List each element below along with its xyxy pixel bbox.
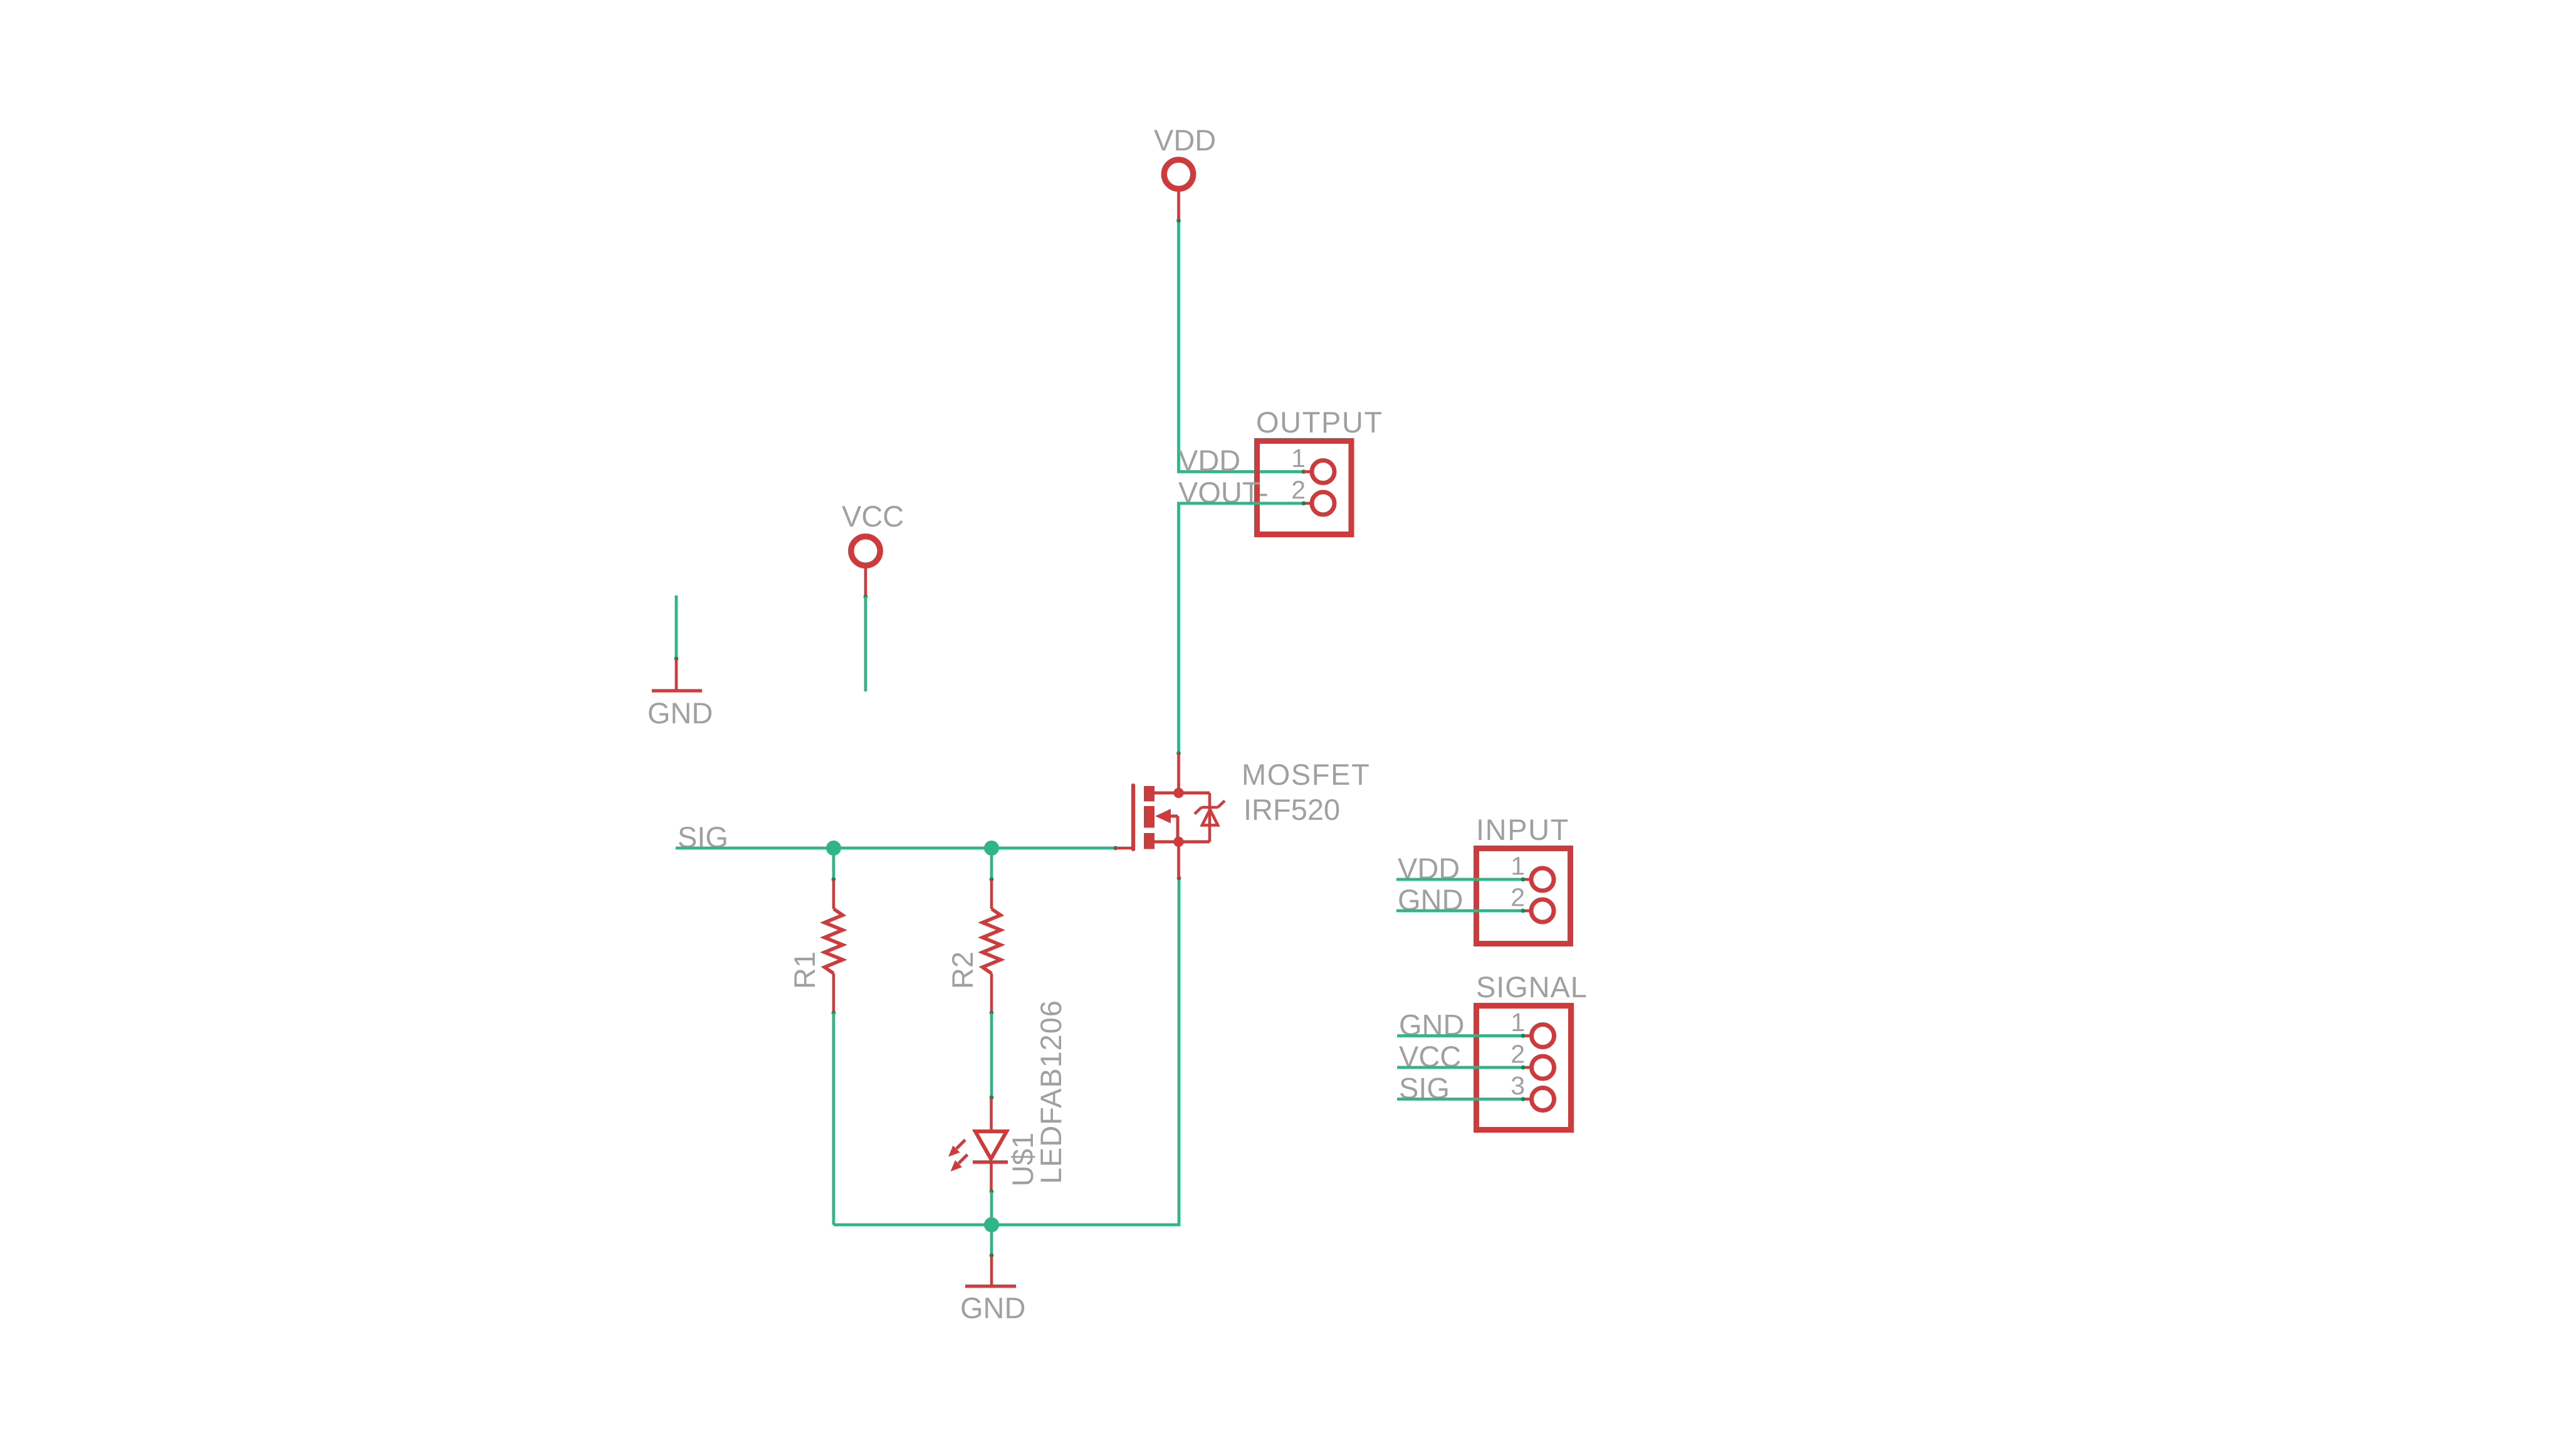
SIGNAL connector bbox=[1399, 970, 1588, 1130]
svg-text:1: 1 bbox=[1291, 444, 1306, 473]
wire SIGNAL pin 2 (VCC) bbox=[1397, 1066, 1525, 1070]
pin 2 bbox=[1304, 502, 1311, 505]
pin 2 bbox=[1523, 1066, 1531, 1069]
svg-text:IRF520: IRF520 bbox=[1243, 793, 1340, 826]
pin 2 bbox=[1523, 909, 1531, 913]
substrate arrow bbox=[1155, 809, 1171, 824]
channel blocks bbox=[1144, 786, 1154, 802]
svg-text:INPUT: INPUT bbox=[1476, 813, 1569, 846]
wire GND rail (bottom) and up to MOSFET source bbox=[834, 876, 1181, 1225]
wire LED cathode to GND rail bbox=[990, 1190, 994, 1225]
wire SIGNAL pin 3 (SIG) bbox=[1397, 1097, 1525, 1101]
supply symbol VDD bbox=[1154, 123, 1216, 221]
source pin bbox=[1177, 842, 1180, 878]
svg-text:SIGNAL: SIGNAL bbox=[1476, 970, 1588, 1004]
body diode bbox=[1195, 793, 1225, 842]
wire R1 bottom lead to GND rail bbox=[832, 1011, 836, 1225]
OUTPUT connector bbox=[1178, 406, 1383, 535]
svg-text:VDD: VDD bbox=[1154, 123, 1216, 157]
transistor Q1 MOSFET IRF520 bbox=[1116, 753, 1370, 878]
ground symbol GND (bottom) bbox=[960, 1255, 1025, 1324]
pin 1 bbox=[1523, 1034, 1531, 1037]
drain pin bbox=[1177, 753, 1180, 793]
wire VOUT- net (OUTPUT pin 2 to MOSFET drain) bbox=[1176, 501, 1306, 756]
pin 1 bbox=[1523, 878, 1531, 881]
svg-text:2: 2 bbox=[1511, 1040, 1525, 1069]
junction dot (SIG / R1) bbox=[826, 841, 841, 856]
gate pin bbox=[1116, 847, 1132, 850]
svg-text:LEDFAB1206: LEDFAB1206 bbox=[1034, 1000, 1067, 1184]
wire SIG net bbox=[676, 846, 1118, 882]
junction dot (SIG / R2) bbox=[984, 841, 999, 856]
svg-text:R1: R1 bbox=[788, 951, 821, 989]
svg-text:MOSFET: MOSFET bbox=[1242, 758, 1370, 791]
resistor R1 bbox=[788, 879, 843, 1013]
wire VDD net (supply to OUTPUT pin 1) bbox=[1176, 219, 1306, 474]
drain internal line bbox=[1154, 792, 1210, 795]
resistor R2 bbox=[946, 879, 1001, 1013]
svg-text:3: 3 bbox=[1511, 1071, 1525, 1100]
wire INPUT pin 1 (VDD) bbox=[1396, 878, 1525, 882]
pin 3 bbox=[1523, 1098, 1531, 1101]
svg-text:GND: GND bbox=[647, 696, 713, 730]
source internal line bbox=[1154, 841, 1210, 844]
svg-text:2: 2 bbox=[1291, 476, 1306, 505]
svg-text:VDD: VDD bbox=[1178, 444, 1240, 477]
svg-text:R2: R2 bbox=[946, 951, 979, 989]
svg-text:VCC: VCC bbox=[842, 500, 904, 533]
supply symbol VCC bbox=[842, 500, 904, 597]
pin 1 bbox=[1304, 470, 1311, 473]
junction dot (GND rail / LED) bbox=[984, 1217, 999, 1232]
svg-text:2: 2 bbox=[1511, 883, 1525, 912]
svg-text:1: 1 bbox=[1511, 852, 1525, 881]
wire R2 to LED bbox=[990, 1011, 994, 1100]
LED emission arrow 2 bbox=[951, 1155, 968, 1171]
wire VCC net stub bbox=[864, 595, 868, 691]
LED U$1 LEDFAB1206 bbox=[948, 1000, 1067, 1192]
INPUT connector bbox=[1398, 813, 1571, 944]
svg-text:1: 1 bbox=[1511, 1008, 1525, 1037]
wire SIGNAL pin 1 (GND) bbox=[1397, 1034, 1525, 1038]
wire GND net stub (left) bbox=[674, 595, 679, 661]
ground symbol GND (left) bbox=[647, 659, 713, 730]
svg-text:OUTPUT: OUTPUT bbox=[1256, 406, 1383, 439]
svg-text:GND: GND bbox=[960, 1291, 1025, 1324]
gate bar bbox=[1131, 785, 1135, 849]
wire stub to bottom ground bbox=[990, 1225, 994, 1257]
LED emission arrow 1 bbox=[948, 1140, 965, 1157]
wire INPUT pin 2 (GND) bbox=[1396, 909, 1525, 913]
